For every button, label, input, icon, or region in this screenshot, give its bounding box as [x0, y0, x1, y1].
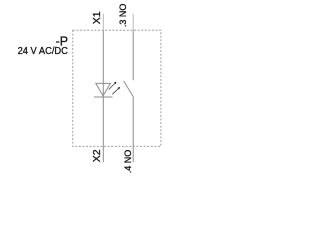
terminal stub X1 (above enclosure): [102, 14, 104, 31]
svg-text:X1: X1: [91, 11, 103, 24]
wire: contact branch lower: [132, 97, 134, 163]
svg-text:.3 NO: .3 NO: [118, 4, 128, 28]
LED light arrow 1: [109, 82, 117, 90]
terminal stub .3 (above enclosure): [132, 14, 134, 31]
wire: LED branch X1-X2: [102, 30, 104, 162]
NO contact moving blade: [124, 81, 134, 97]
module outline (dashed enclosure): [73, 30, 161, 146]
wire: contact branch upper: [132, 30, 134, 80]
LED D1 cathode bar: [94, 96, 113, 98]
LED D1 triangle: [96, 83, 111, 95]
svg-text:X2: X2: [91, 149, 103, 162]
LED light arrow 2: [112, 87, 120, 95]
svg-text:24 V AC/DC: 24 V AC/DC: [18, 46, 68, 57]
svg-text:.4 NO: .4 NO: [123, 150, 133, 174]
